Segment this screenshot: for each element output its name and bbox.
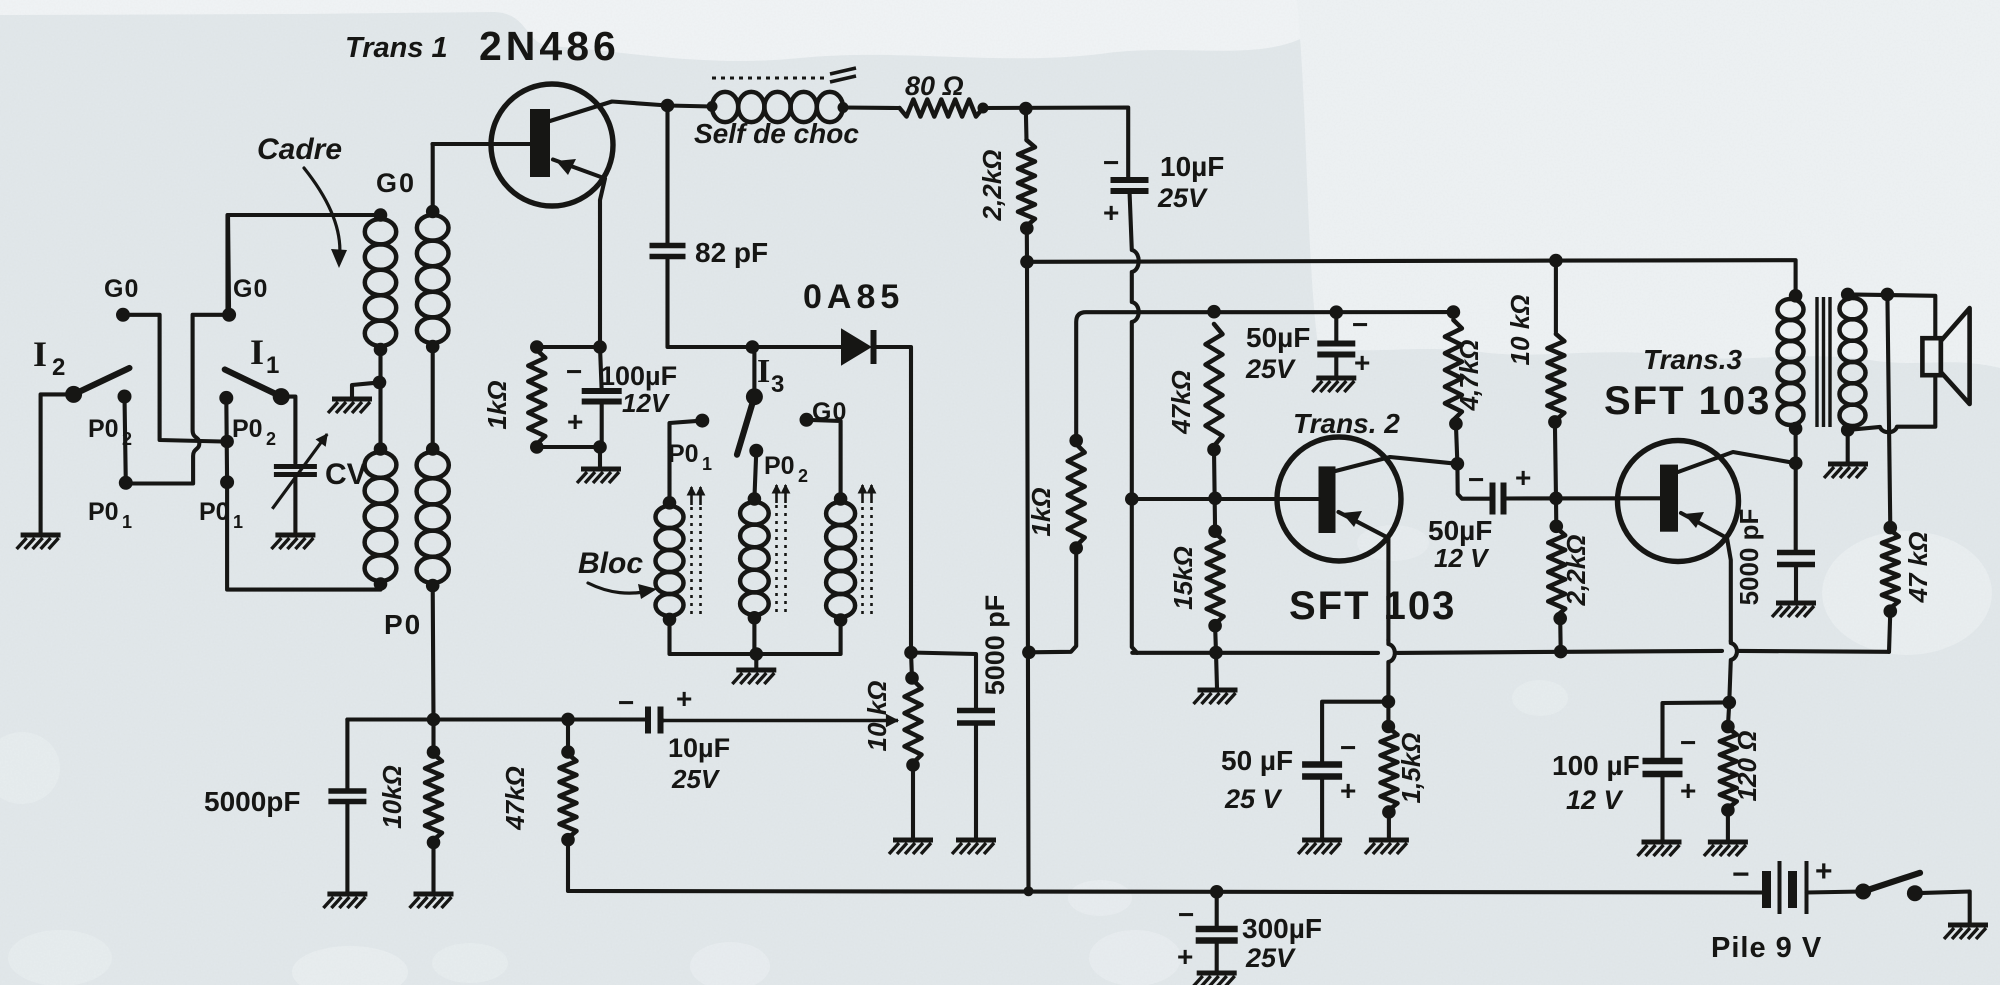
- node 1k branch: [1022, 646, 1036, 660]
- svg-text:P0: P0: [199, 498, 230, 526]
- svg-text:120 Ω: 120 Ω: [1732, 731, 1762, 802]
- wire 1k2 top to rail312: [1076, 312, 1453, 441]
- capacitor C2 100uF plates: [582, 391, 622, 402]
- wire 5000pF left to ground: [345, 802, 349, 893]
- node emitter junction: [593, 340, 607, 354]
- label 50uF25-2: [1221, 745, 1293, 776]
- wire PO1 to bloc coil1: [670, 421, 703, 503]
- label plus 100uF2: [1680, 775, 1696, 806]
- svg-text:1: 1: [233, 512, 243, 532]
- label Trans 1: [345, 32, 448, 64]
- wire switch to ground: [1915, 892, 1970, 924]
- node 1.5k top: [1382, 720, 1396, 734]
- label 25V 50uF25: [1245, 354, 1296, 384]
- dashed arrows bloc coil3: [858, 485, 875, 614]
- label 25V 50uF25-2: [1224, 784, 1283, 814]
- node 10k left bottom: [427, 836, 441, 850]
- svg-text:P0: P0: [668, 440, 699, 468]
- wire 10uF to pot wiper: [661, 718, 664, 722]
- wire bloc ground stub: [754, 654, 758, 668]
- svg-text:G0: G0: [376, 168, 416, 198]
- svg-text:12V: 12V: [622, 388, 671, 418]
- node rail651 ground tap: [1209, 646, 1223, 660]
- label plus 50uF25: [1354, 347, 1370, 378]
- node bloc coil2 top: [748, 492, 762, 506]
- node PO1 contact left: [119, 476, 133, 490]
- wire cadre bottom to I1 column: [227, 482, 380, 589]
- svg-text:+: +: [567, 406, 583, 437]
- svg-text:+: +: [1515, 462, 1531, 493]
- node 10k2 bottom: [1548, 415, 1562, 429]
- svg-text:2N486: 2N486: [479, 23, 620, 69]
- svg-text:100 µF: 100 µF: [1552, 750, 1640, 781]
- resistor R4 10k left: [425, 754, 442, 840]
- label Pile 9V: [1711, 932, 1822, 964]
- wire 300uF top: [1215, 892, 1219, 929]
- svg-text:+: +: [1103, 197, 1119, 228]
- node collector junction: [661, 99, 675, 113]
- wire primary bottom: [1794, 429, 1798, 464]
- wire 10k2 to junction: [1555, 422, 1556, 498]
- dashed arrows bloc coil1: [687, 487, 704, 614]
- node pot bottom: [906, 758, 920, 772]
- label 5000pF left: [204, 786, 301, 817]
- node coupling coil top: [426, 205, 440, 219]
- wire branch to 50uF25-2: [1322, 702, 1388, 762]
- wire coupling coil top to base: [431, 144, 435, 212]
- svg-text:I: I: [757, 353, 770, 390]
- node junction on I1 column: [220, 435, 234, 449]
- wire 300uF bottom: [1215, 941, 1219, 972]
- ground 50uF25-2: [1298, 840, 1342, 854]
- node 47k bottom: [1207, 443, 1221, 457]
- node PO column junction: [427, 713, 441, 727]
- wire 2.2k top: [1024, 109, 1029, 141]
- svg-text:12 V: 12 V: [1566, 785, 1624, 815]
- svg-text:Trans 1: Trans 1: [345, 32, 448, 64]
- node I3 tap: [746, 340, 760, 354]
- capacitor C3 82pF: [650, 246, 686, 257]
- svg-text:5000 pF: 5000 pF: [1734, 509, 1764, 606]
- node secondary top: [1841, 288, 1855, 302]
- node 80ohm right: [978, 103, 989, 114]
- node supply rail left: [1020, 255, 1034, 269]
- inductor L1a cadre upper winding: [365, 219, 396, 346]
- svg-text:50µF: 50µF: [1428, 515, 1492, 546]
- resistor R2 80ohm: [900, 100, 984, 117]
- wire 1.5k to ground: [1387, 812, 1391, 838]
- label PO1 left: [88, 498, 132, 532]
- svg-text:2: 2: [798, 466, 808, 486]
- node 120 top: [1721, 720, 1735, 734]
- wire cadre mid: [378, 350, 382, 383]
- svg-text:25 V: 25 V: [1224, 784, 1283, 814]
- transistor Q3 emitter lead with arrow: [1681, 512, 1731, 641]
- wire bottom rail: [568, 840, 1764, 893]
- wire secondary bottom to ground: [1846, 430, 1850, 462]
- label 2N486: [479, 23, 620, 69]
- core symbol above choke: [830, 68, 856, 82]
- node 2.2k top: [1019, 102, 1033, 116]
- ground rail651: [1194, 690, 1238, 704]
- node cadre mid tap: [373, 376, 387, 390]
- wire bloc coil3 bottom: [756, 620, 840, 654]
- label 10uF25: [1160, 151, 1224, 182]
- label 15k: [1168, 546, 1198, 610]
- capacitor C8 10uF 25V: [1111, 180, 1149, 191]
- wire rail651 ground stub: [1216, 653, 1217, 688]
- node 2.2k2 rail: [1554, 645, 1568, 659]
- node 47k left top2: [561, 745, 575, 759]
- label 10k2: [1505, 295, 1535, 366]
- capacitor C12 100uF 12V: [1643, 761, 1683, 774]
- capacitor C6 10uF coupling: [648, 707, 661, 734]
- svg-text:47kΩ: 47kΩ: [500, 766, 530, 831]
- node 47k top: [1207, 305, 1221, 319]
- wire 47k to 15k: [1214, 450, 1215, 532]
- wire CV to ground: [293, 476, 297, 532]
- transistor Q1 base lead: [433, 142, 531, 146]
- wire PO node line: [347, 717, 645, 721]
- node 47k left bottom: [561, 833, 575, 847]
- svg-text:+: +: [676, 683, 692, 714]
- node Q3 collector junction: [1789, 456, 1803, 470]
- svg-text:SFT 103: SFT 103: [1289, 584, 1456, 628]
- label 2.2k: [977, 150, 1007, 222]
- resistor R10 4.7k: [1445, 320, 1462, 420]
- transistor Q2 collector lead: [1336, 457, 1458, 471]
- wire secondary top to speaker: [1848, 294, 1936, 338]
- label PO2 right: [232, 415, 276, 449]
- transistor Q3 collector lead: [1678, 452, 1796, 472]
- svg-text:Bloc: Bloc: [578, 547, 643, 580]
- wire I1 pivot to CV: [281, 397, 295, 463]
- label 25V 10uF: [671, 764, 721, 794]
- label Cadre: [257, 133, 342, 166]
- wire emitter junction to 1k: [537, 345, 600, 349]
- svg-text:Trans.3: Trans.3: [1643, 344, 1743, 375]
- wire 5000pF left drop: [345, 720, 349, 790]
- capacitor CV variable: [274, 467, 317, 475]
- wire coupling cap to Q3 base: [1504, 496, 1661, 500]
- ground secondary: [1824, 464, 1868, 478]
- label 2.2k2: [1561, 535, 1591, 607]
- resistor R8 47k: [1206, 324, 1223, 446]
- ground I2: [17, 535, 61, 549]
- svg-text:+: +: [1340, 775, 1356, 806]
- node 47k left top: [561, 713, 575, 727]
- svg-text:CV: CV: [325, 458, 367, 491]
- wire speaker return: [1848, 375, 1936, 432]
- switch I2 pivot: [65, 386, 82, 403]
- ground 300uF: [1193, 973, 1237, 985]
- node emitter branch: [1382, 695, 1396, 709]
- svg-text:2,2kΩ: 2,2kΩ: [977, 150, 1007, 222]
- ground 1.5k: [1365, 840, 1409, 854]
- node pot top: [905, 671, 919, 685]
- label SFT 103 Trans3: [1604, 379, 1771, 423]
- node rail open circle: [1024, 886, 1034, 896]
- inductor L1b cadre lower winding: [365, 452, 397, 581]
- capacitor C13 5000pF third: [1777, 553, 1815, 565]
- wire collector to coupling cap: [1457, 464, 1492, 499]
- transistor Q2 emitter lead with arrow: [1339, 511, 1389, 640]
- label I1: [250, 332, 279, 379]
- svg-text:P0: P0: [764, 452, 795, 480]
- node 2.2k bottom: [1020, 221, 1034, 235]
- resistor R6 2.2k: [1018, 140, 1035, 226]
- node 10k left top: [427, 745, 441, 759]
- label 12V 100uF2: [1566, 785, 1624, 815]
- capacitor CV arrow: [272, 434, 327, 509]
- wire 80ohm to corner and down to 10uF: [983, 108, 1128, 178]
- label plus battery: [1815, 855, 1833, 888]
- svg-text:−: −: [1178, 899, 1194, 930]
- switch on-off pivot: [1855, 884, 1871, 900]
- wire 100uF2 to ground: [1660, 774, 1664, 840]
- svg-text:G0: G0: [233, 275, 268, 303]
- wire GO-left to I1 column: [123, 315, 222, 442]
- label minus 50uF25: [1352, 309, 1368, 340]
- label 100uF2: [1552, 750, 1640, 781]
- label 5000pF mid: [980, 595, 1010, 696]
- label minus 50uF12: [1468, 464, 1484, 495]
- label minus 10uF: [618, 687, 634, 718]
- wire choke to 80ohm: [843, 105, 900, 110]
- node GO contact bloc: [800, 413, 814, 427]
- node Q3 base junction: [1549, 492, 1563, 506]
- svg-text:80 Ω: 80 Ω: [905, 71, 964, 101]
- svg-text:+: +: [1815, 855, 1833, 888]
- wire 5000pF3 to ground: [1794, 565, 1798, 602]
- svg-text:2,2kΩ: 2,2kΩ: [1561, 535, 1591, 607]
- capacitor C10 50uF 12V: [1493, 483, 1504, 515]
- svg-text:−: −: [1103, 147, 1119, 178]
- svg-text:1,5kΩ: 1,5kΩ: [1396, 733, 1426, 804]
- wire PO2-PO1 left: [125, 397, 126, 483]
- label 120ohm: [1732, 731, 1762, 802]
- label GO bloc: [812, 398, 847, 426]
- svg-text:50µF: 50µF: [1246, 322, 1310, 353]
- arrow from Bloc label: [588, 583, 657, 599]
- node base rail divider: [1208, 492, 1222, 506]
- label Trans.2: [1293, 408, 1400, 439]
- svg-text:G0: G0: [104, 275, 139, 303]
- svg-text:50 µF: 50 µF: [1221, 745, 1293, 776]
- wire 47k2 to rail651: [1889, 611, 1890, 652]
- inductor self de choc: [712, 92, 843, 122]
- label 25V 10uF25: [1157, 183, 1208, 213]
- ground 100uF2: [1638, 842, 1682, 856]
- inductor bloc coil1: [656, 506, 684, 616]
- rail ground return: [1132, 651, 1889, 653]
- label minus battery: [1732, 858, 1750, 891]
- label 80ohm: [905, 71, 964, 101]
- ground 5000pF left: [323, 894, 367, 908]
- node PO2 contact left: [118, 390, 132, 404]
- node 47k2 top: [1884, 521, 1898, 535]
- wire cadre mid tap to ground: [352, 382, 380, 398]
- transistor Q3 Trans3 SFT103: [1618, 441, 1739, 562]
- svg-text:−: −: [1340, 732, 1356, 763]
- svg-text:5000pF: 5000pF: [204, 786, 301, 817]
- ground battery switch: [1944, 925, 1988, 939]
- wire 2.2k bottom to rail: [1025, 228, 1029, 262]
- wire down to 10k left: [431, 720, 435, 753]
- label GO right: [233, 275, 268, 303]
- svg-text:10 kΩ: 10 kΩ: [1505, 295, 1535, 366]
- node 10k2 top: [1549, 254, 1563, 268]
- wire cap bottom: [600, 402, 602, 468]
- wire detector to 5000pF corner: [911, 653, 976, 709]
- label PO: [384, 609, 422, 640]
- svg-text:47 kΩ: 47 kΩ: [1903, 532, 1933, 604]
- svg-text:10kΩ: 10kΩ: [377, 765, 407, 829]
- svg-text:Cadre: Cadre: [257, 133, 342, 166]
- label 4.7k: [1454, 340, 1484, 412]
- node 1.5k bottom: [1382, 805, 1396, 819]
- node coupling lower top: [426, 442, 440, 456]
- wire 1k bottom to cap bottom: [537, 445, 600, 449]
- node coupling coil bottom: [426, 579, 440, 593]
- node cadre lower top: [374, 442, 388, 456]
- node base rail left: [1125, 492, 1139, 506]
- capacitor C11 50uF 25V second: [1302, 765, 1342, 777]
- battery Pile 9V: [1767, 861, 1807, 914]
- wire PO2 to bloc coil2: [754, 451, 756, 499]
- dashed arrows bloc coil2: [772, 485, 789, 612]
- ground CV: [271, 535, 315, 549]
- svg-text:25V: 25V: [1245, 943, 1296, 973]
- svg-text:I: I: [250, 332, 264, 372]
- node bloc coil2 bottom: [748, 611, 762, 625]
- label 47k2: [1903, 532, 1933, 604]
- svg-text:−: −: [618, 687, 634, 718]
- node cadre winding junction upper: [374, 343, 388, 357]
- wire coupling bottom to PO node: [431, 586, 436, 720]
- node bloc coil3 bottom: [834, 613, 848, 627]
- node 1k2 bottom: [1069, 541, 1083, 555]
- label PO2 bloc: [764, 452, 808, 486]
- ground 10k left: [410, 894, 454, 908]
- node primary top: [1789, 289, 1803, 303]
- svg-text:25V: 25V: [671, 764, 721, 794]
- svg-text:SFT 103: SFT 103: [1604, 379, 1771, 423]
- resistor R1 1kOhm: [528, 350, 545, 444]
- node coupling winding junction: [426, 340, 440, 354]
- wire branch to 100uF2: [1663, 702, 1730, 758]
- wire 10uF25 bottom hop rail262: [1130, 191, 1139, 497]
- wire 4.7k to collector node: [1456, 424, 1458, 464]
- node cap bottom: [593, 440, 607, 454]
- label 1kOhm: [482, 380, 512, 429]
- label plus 50uF12: [1515, 462, 1531, 493]
- node GO contact left: [116, 308, 130, 322]
- wire 10k left to ground: [431, 842, 435, 892]
- capacitor C7 300uF: [1196, 929, 1238, 941]
- svg-text:1kΩ: 1kΩ: [1026, 487, 1056, 536]
- wire bloc coil2 bottom: [752, 618, 756, 654]
- label I3: [757, 353, 784, 398]
- wire 10k2 drop: [1554, 261, 1558, 332]
- wire Q2 emitter hop and down: [1388, 640, 1394, 700]
- label SFT 103 Trans2: [1289, 584, 1456, 628]
- node bloc ground tap: [750, 647, 764, 661]
- wire bloc coil1 bottom: [670, 619, 757, 654]
- node detector junction: [904, 646, 918, 660]
- wire feedback 47k2: [1887, 294, 1890, 527]
- label 47k left: [500, 766, 530, 831]
- wire collector junction to choke: [668, 106, 713, 107]
- svg-text:4,7kΩ: 4,7kΩ: [1454, 340, 1484, 412]
- wire coupling mid: [431, 347, 435, 449]
- node bloc coil3 top: [834, 492, 848, 506]
- svg-text:2: 2: [52, 354, 65, 381]
- wire cadre mid lower: [378, 382, 382, 449]
- wire 2.2k2 to rail651: [1558, 618, 1563, 651]
- transistor Q2 Trans2 SFT103: [1277, 437, 1401, 561]
- inductor T primary: [1778, 299, 1804, 425]
- svg-text:1: 1: [266, 352, 279, 379]
- switch I3 lever: [737, 397, 754, 455]
- capacitor C5 5000pF left: [328, 791, 366, 802]
- label 1.5k: [1396, 733, 1426, 804]
- svg-text:12 V: 12 V: [1434, 543, 1490, 573]
- node 47k2 bottom: [1884, 604, 1898, 618]
- wire 50uF25 bottom: [1334, 355, 1338, 377]
- svg-text:−: −: [1352, 309, 1368, 340]
- dashed core line above choke: [712, 77, 826, 80]
- label minus 50uF25-2: [1340, 732, 1356, 763]
- svg-text:−: −: [566, 356, 582, 387]
- node 15k bottom: [1208, 619, 1222, 633]
- transistor Q1 Trans1 2N486: [491, 84, 613, 206]
- label 25V 300uF: [1245, 943, 1296, 973]
- label plus 10uF: [676, 683, 692, 714]
- svg-text:P0: P0: [88, 498, 119, 526]
- wire I3 pivot stub: [752, 347, 756, 397]
- label 47k: [1166, 370, 1196, 435]
- wire battery to switch: [1807, 892, 1864, 893]
- transformer core: [1817, 297, 1830, 427]
- inductor T secondary: [1840, 298, 1866, 426]
- switch on-off lever: [1863, 873, 1920, 892]
- svg-text:5000 pF: 5000 pF: [980, 595, 1010, 696]
- svg-text:P0: P0: [232, 415, 263, 443]
- wire PO2-PO1 right column: [224, 398, 229, 482]
- wire 5000pF to ground: [974, 723, 978, 838]
- svg-text:P0: P0: [88, 415, 119, 443]
- label 12V: [622, 388, 671, 418]
- node PO1 contact bloc: [695, 414, 709, 428]
- label plus 10uF25: [1103, 197, 1119, 228]
- svg-text:82 pF: 82 pF: [695, 237, 768, 268]
- ground 5000pF mid: [952, 840, 996, 854]
- ground 5000pF3: [1772, 603, 1816, 617]
- node switch contact: [1907, 885, 1923, 901]
- wire branch to 120: [1728, 702, 1729, 726]
- wire GO-right crossover to PO1-left: [126, 315, 229, 484]
- svg-text:0A85: 0A85: [803, 278, 904, 316]
- inductor bloc coil2: [740, 502, 769, 615]
- label 5000pF3: [1734, 509, 1764, 606]
- node 4.7k bottom: [1449, 417, 1463, 431]
- label minus 100uF2: [1680, 727, 1696, 758]
- svg-text:+: +: [1680, 775, 1696, 806]
- wire GO-right up to cadre: [228, 215, 381, 315]
- label 82pF: [695, 237, 768, 268]
- node 120 bottom: [1721, 803, 1735, 817]
